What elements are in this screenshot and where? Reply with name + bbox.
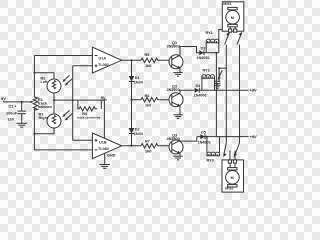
svg-text:2N3903: 2N3903 xyxy=(167,45,180,49)
wire midpoint extension to 9V flag xyxy=(78,99,105,101)
wire rail A vertical xyxy=(225,45,227,144)
relay contact RY3b xyxy=(234,143,240,160)
node junction rail bottom xyxy=(33,133,35,135)
relay contact RY3a xyxy=(223,143,230,160)
diode D5 1N4001 xyxy=(198,130,211,144)
op-amp U1B TL082 xyxy=(92,133,121,159)
ground (RY2 contact) xyxy=(215,85,221,88)
svg-text:track sensitivity: track sensitivity xyxy=(77,115,101,119)
svg-text:1N4001: 1N4001 xyxy=(198,140,211,144)
transistor Q1 2N3903 xyxy=(167,41,184,69)
resistor R4 track sensitivity xyxy=(77,100,101,119)
svg-text:Right: Right xyxy=(39,116,49,120)
node junction U1A out / D1 xyxy=(131,59,133,61)
node junction bottom rail B xyxy=(239,136,241,138)
node junction D-rail mid xyxy=(131,99,133,101)
wire U1B output xyxy=(122,145,141,147)
diode D4 1N4001 xyxy=(194,84,207,98)
svg-text:M: M xyxy=(231,16,234,20)
wire to R2 top xyxy=(34,73,54,79)
svg-text:1N4001: 1N4001 xyxy=(197,56,210,60)
relay coil RY1 xyxy=(206,31,219,54)
wire midpoint to bus xyxy=(54,99,78,101)
svg-text:GND: GND xyxy=(107,154,116,158)
ground (Q1) xyxy=(173,73,182,77)
relay contact RY2a xyxy=(215,67,227,85)
resistor R7 1k0 xyxy=(141,140,171,154)
diode D3 1N4001 xyxy=(197,47,210,60)
relay contact RY1b xyxy=(237,32,242,45)
node junction mid rail xyxy=(215,89,217,91)
svg-text:D4: D4 xyxy=(196,84,202,88)
svg-text:2N3903: 2N3903 xyxy=(167,88,180,92)
svg-text:1k0: 1k0 xyxy=(145,150,151,154)
wire Q2 emitter xyxy=(179,106,181,115)
svg-text:M: M xyxy=(231,176,234,180)
svg-text:+9V: +9V xyxy=(250,88,258,93)
transistor Q3 2N3903 xyxy=(167,133,184,154)
wire D1 rail upper xyxy=(131,60,133,76)
svg-text:MG1: MG1 xyxy=(223,2,231,6)
svg-text:D5: D5 xyxy=(201,130,206,134)
svg-text:9V: 9V xyxy=(1,96,6,101)
svg-text:U1A: U1A xyxy=(99,57,107,61)
wire to U1B + input xyxy=(73,139,93,141)
photoresistor R3 Right xyxy=(39,113,62,129)
potentiometer R1 track balance xyxy=(29,97,52,110)
svg-text:D1: D1 xyxy=(135,76,140,80)
svg-text:2N3903: 2N3903 xyxy=(167,137,180,141)
wire D-rail lower xyxy=(131,100,133,128)
svg-text:RY3: RY3 xyxy=(207,159,214,163)
light arrows into R3 xyxy=(62,110,72,120)
wire rail D vertical xyxy=(215,53,217,137)
wire top (to U1A inverting input) xyxy=(34,55,92,57)
wire U1A output xyxy=(122,59,141,61)
transistor Q2 2N3903 xyxy=(167,85,184,107)
svg-text:C1 +: C1 + xyxy=(9,105,18,109)
svg-text:TL082: TL082 xyxy=(98,63,109,67)
svg-text:RY2: RY2 xyxy=(203,69,210,73)
svg-text:Left: Left xyxy=(41,80,49,84)
motor MG1 xyxy=(222,2,244,32)
relay coil RY3 xyxy=(206,136,220,163)
relay coil RY2 xyxy=(202,69,215,91)
wire U1B V- pin to ground xyxy=(105,153,116,164)
node LDR midpoint junction xyxy=(53,99,55,101)
svg-text:balance: balance xyxy=(38,105,52,109)
svg-text:MG2: MG2 xyxy=(225,187,233,191)
wire Q1 collector xyxy=(180,47,199,56)
op-amp U1A TL082 xyxy=(92,47,121,73)
wire D2 to U1B output wire xyxy=(131,134,133,146)
svg-text:R5: R5 xyxy=(145,53,150,57)
ground (U1B) xyxy=(100,165,111,169)
svg-text:U1B: U1B xyxy=(99,141,107,145)
wire to U1A + input xyxy=(73,65,93,67)
svg-text:1k0: 1k0 xyxy=(145,64,151,68)
diode D2 1N34 xyxy=(129,128,144,137)
wire Q3 collector xyxy=(180,137,197,142)
svg-text:+9V: +9V xyxy=(250,134,258,139)
svg-text:9V: 9V xyxy=(101,95,106,100)
wire Q3 emitter xyxy=(179,154,181,157)
svg-text:RY1: RY1 xyxy=(206,31,213,35)
photoresistor R2 Left xyxy=(41,77,62,94)
resistor R5 1k0 xyxy=(141,53,171,68)
svg-text:TL082: TL082 xyxy=(98,147,109,151)
wire input bus vertical xyxy=(72,66,74,141)
ground (Q2) xyxy=(173,115,182,119)
wire D1 to R6 junction xyxy=(131,82,133,100)
node 9V flag (U1B supply) xyxy=(101,95,107,138)
wire +9V bottom horizontal xyxy=(197,136,249,138)
svg-text:R6: R6 xyxy=(145,94,150,98)
relay contact RY1a xyxy=(225,32,230,45)
node bus junction xyxy=(72,99,74,101)
svg-text:D2: D2 xyxy=(135,128,140,132)
wire Q2 collector xyxy=(180,90,194,93)
capacitor C1 xyxy=(6,101,26,123)
node junction LDR R2 top xyxy=(33,72,35,74)
motor MG2 xyxy=(222,160,244,192)
ground (under C1) xyxy=(17,123,28,127)
wire rail B vertical xyxy=(239,45,241,144)
svg-text:D3: D3 xyxy=(201,47,206,51)
svg-text:1N4001: 1N4001 xyxy=(194,94,207,98)
wire R3 bottom to rail xyxy=(34,128,54,134)
svg-text:100uF: 100uF xyxy=(6,111,18,115)
diode D1 1N34 xyxy=(129,76,144,85)
wire bottom rail (to U1B inverting input) xyxy=(34,149,92,151)
wire battery +9V horizontal xyxy=(4,101,30,103)
node junction bottom rail A xyxy=(225,136,227,138)
node +9V battery label xyxy=(1,96,6,102)
svg-text:1N34: 1N34 xyxy=(134,81,144,85)
light arrows into R2 xyxy=(62,75,72,85)
resistor R6 1k0 xyxy=(132,94,172,108)
wire left rail lower vertical xyxy=(33,109,35,150)
wire RY1 to +9V rail xyxy=(219,30,229,43)
ground (Q3) xyxy=(173,156,182,160)
wire Q1 emitter xyxy=(179,68,181,72)
node junction U1B out xyxy=(131,145,133,147)
svg-text:1N34: 1N34 xyxy=(134,132,144,136)
wire between LDRs xyxy=(53,93,55,114)
wire +9V mid horizontal xyxy=(199,89,248,91)
svg-text:16V: 16V xyxy=(8,118,15,122)
wire left rail vertical xyxy=(33,56,35,98)
svg-text:R7: R7 xyxy=(145,140,150,144)
svg-text:1k0: 1k0 xyxy=(145,104,151,108)
